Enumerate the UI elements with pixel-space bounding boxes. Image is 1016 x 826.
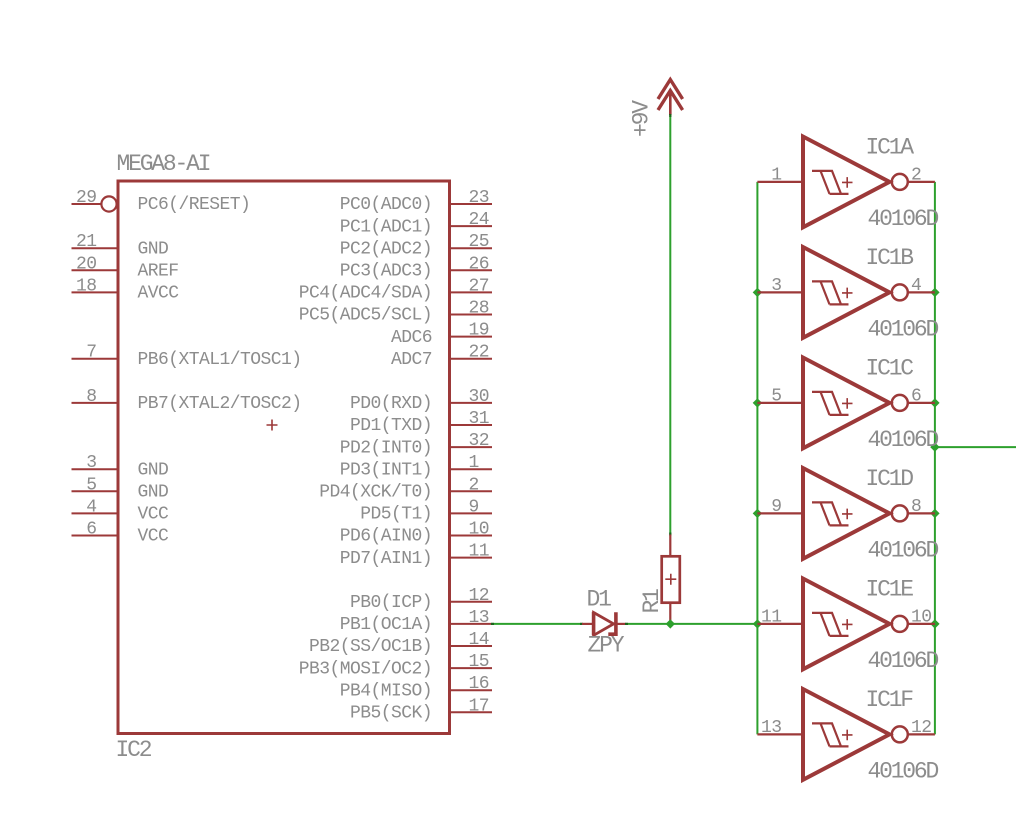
IC2 pin 18 AVCC (left) <box>72 276 180 303</box>
diode D1 (zener) <box>582 612 626 635</box>
svg-text:IC1E: IC1E <box>866 576 914 602</box>
junction input bus row 19 <box>753 619 762 628</box>
wire output to right edge <box>935 446 1016 448</box>
svg-text:8: 8 <box>911 497 921 517</box>
svg-text:40106D: 40106D <box>868 206 939 232</box>
svg-text:14: 14 <box>469 630 490 650</box>
svg-text:IC1D: IC1D <box>866 466 914 492</box>
svg-text:5: 5 <box>771 386 781 406</box>
inverter gate IC1D 40106D <box>757 468 935 559</box>
IC2 pin 20 AREF (left) <box>72 254 179 281</box>
svg-text:26: 26 <box>469 254 490 274</box>
IC2 pin 15 PB3(MOSI/OC2) (right) <box>299 652 492 679</box>
svg-text:32: 32 <box>469 431 490 451</box>
svg-text:40106D: 40106D <box>868 427 939 453</box>
svg-text:+9V: +9V <box>629 100 655 137</box>
junction output bus y=447 <box>930 442 939 451</box>
inverter gate IC1A 40106D <box>757 137 935 228</box>
IC U-IC2 MEGA8-AI body outline <box>118 181 450 734</box>
svg-text:3: 3 <box>771 276 781 296</box>
IC2 pin 19 ADC6 (right) <box>391 321 492 348</box>
IC2 pin 16 PB4(MISO) (right) <box>340 674 492 701</box>
svg-text:9: 9 <box>771 497 781 517</box>
svg-text:IC2: IC2 <box>116 737 152 763</box>
svg-text:PB2(SS/OC1B): PB2(SS/OC1B) <box>309 637 432 657</box>
wire input bus vertical (net to gate inputs) <box>756 182 758 735</box>
IC2 pin 14 PB2(SS/OC1B) (right) <box>309 630 492 657</box>
svg-text:PC4(ADC4/SDA): PC4(ADC4/SDA) <box>299 284 432 304</box>
svg-text:17: 17 <box>469 696 490 716</box>
svg-text:10: 10 <box>469 520 490 540</box>
svg-text:40106D: 40106D <box>868 316 939 342</box>
IC2 pin 13 PB1(OC1A) (right) <box>340 608 492 635</box>
IC2 pin 9 PD5(T1) (right) <box>360 497 492 524</box>
IC2 pin 4 VCC (left) <box>72 497 170 524</box>
junction output bus y=624 <box>930 619 939 628</box>
IC2 pin 5 GND (left) <box>72 475 169 502</box>
junction output bus y=403 <box>930 398 939 407</box>
svg-text:3: 3 <box>86 453 96 473</box>
IC2 pin 29 PC6(/RESET) (left) <box>72 188 251 215</box>
svg-text:PB5(SCK): PB5(SCK) <box>350 704 432 724</box>
resistor R1 <box>662 535 680 624</box>
junction input bus row 4 <box>753 288 762 297</box>
svg-text:5: 5 <box>86 475 96 495</box>
svg-text:PC6(/RESET): PC6(/RESET) <box>138 195 251 215</box>
IC2 pin 23 PC0(ADC0) (right) <box>340 188 492 215</box>
wire D1 cathode to junction node <box>626 623 757 625</box>
svg-text:PD6(AIN0): PD6(AIN0) <box>340 527 432 547</box>
svg-text:PD2(INT0): PD2(INT0) <box>340 438 432 458</box>
IC2 pin 30 PD0(RXD) (right) <box>350 387 492 414</box>
wire output bus vertical (gate outputs) <box>934 182 936 735</box>
svg-text:12: 12 <box>911 718 932 738</box>
IC2 pin 6 VCC (left) <box>72 520 170 547</box>
svg-text:23: 23 <box>469 188 490 208</box>
IC2 pin 24 PC1(ADC1) (right) <box>340 210 492 237</box>
junction R1/wire <box>666 619 675 628</box>
IC2 pin 21 GND (left) <box>72 232 169 259</box>
IC2 pin 2 PD4(XCK/T0) (right) <box>319 475 492 502</box>
svg-text:22: 22 <box>469 343 490 363</box>
svg-text:11: 11 <box>469 542 490 562</box>
svg-text:GND: GND <box>138 460 169 480</box>
svg-text:10: 10 <box>911 607 932 627</box>
svg-text:8: 8 <box>86 387 96 407</box>
svg-text:7: 7 <box>86 343 96 363</box>
svg-text:21: 21 <box>76 232 97 252</box>
IC2 origin cross <box>267 420 278 431</box>
IC2 pin 3 GND (left) <box>72 453 169 480</box>
svg-text:PB7(XTAL2/TOSC2): PB7(XTAL2/TOSC2) <box>138 394 302 414</box>
svg-text:PD0(RXD): PD0(RXD) <box>350 394 432 414</box>
svg-text:18: 18 <box>76 276 97 296</box>
svg-text:27: 27 <box>469 276 490 296</box>
junction output bus y=292 <box>930 288 939 297</box>
svg-text:PB1(OC1A): PB1(OC1A) <box>340 615 432 635</box>
svg-text:PC0(ADC0): PC0(ADC0) <box>340 195 432 215</box>
svg-text:PB0(ICP): PB0(ICP) <box>350 593 432 613</box>
junction input bus row 9 <box>753 398 762 407</box>
svg-text:2: 2 <box>469 475 479 495</box>
svg-text:PB4(MISO): PB4(MISO) <box>340 681 432 701</box>
svg-text:PD7(AIN1): PD7(AIN1) <box>340 549 432 569</box>
wire +9V to R1 <box>669 115 671 535</box>
IC2 pin 12 PB0(ICP) (right) <box>350 586 492 613</box>
IC2 pin 25 PC2(ADC2) (right) <box>340 232 492 259</box>
svg-text:IC1F: IC1F <box>866 687 914 713</box>
svg-text:1: 1 <box>771 165 781 185</box>
IC2 pin 27 PC4(ADC4/SDA) (right) <box>299 276 492 303</box>
svg-text:ADC6: ADC6 <box>391 328 432 348</box>
IC2 pin 1 PD3(INT1) (right) <box>340 453 492 480</box>
svg-text:AVCC: AVCC <box>138 284 180 304</box>
svg-text:PB6(XTAL1/TOSC1): PB6(XTAL1/TOSC1) <box>138 350 302 370</box>
svg-text:4: 4 <box>86 497 96 517</box>
svg-text:PC5(ADC5/SCL): PC5(ADC5/SCL) <box>299 306 432 326</box>
svg-text:13: 13 <box>761 718 782 738</box>
svg-text:11: 11 <box>761 607 782 627</box>
svg-text:IC1A: IC1A <box>866 134 915 160</box>
svg-text:12: 12 <box>469 586 490 606</box>
junction input bus row 14 <box>753 509 762 518</box>
svg-text:13: 13 <box>469 608 490 628</box>
svg-text:PD4(XCK/T0): PD4(XCK/T0) <box>319 483 432 503</box>
svg-text:15: 15 <box>469 652 490 672</box>
svg-text:VCC: VCC <box>138 505 170 525</box>
svg-text:2: 2 <box>911 165 921 185</box>
svg-text:PC3(ADC3): PC3(ADC3) <box>340 262 432 282</box>
svg-text:20: 20 <box>76 254 97 274</box>
wire IC2 PB1(OC1A) to D1 anode <box>492 623 582 625</box>
svg-text:PB3(MOSI/OC2): PB3(MOSI/OC2) <box>299 659 432 679</box>
IC2 pin 8 PB7(XTAL2/TOSC2) (left) <box>72 387 302 414</box>
svg-text:40106D: 40106D <box>868 537 939 563</box>
svg-text:IC1B: IC1B <box>866 245 914 271</box>
svg-text:24: 24 <box>469 210 490 230</box>
IC2 pin 26 PC3(ADC3) (right) <box>340 254 492 281</box>
svg-text:31: 31 <box>469 409 490 429</box>
+9V supply arrow symbol <box>658 80 683 116</box>
svg-text:1: 1 <box>469 453 479 473</box>
inverter gate IC1F 40106D <box>757 689 935 780</box>
svg-text:PC1(ADC1): PC1(ADC1) <box>340 217 432 237</box>
svg-text:6: 6 <box>86 520 96 540</box>
inverter gate IC1E 40106D <box>757 579 935 670</box>
svg-text:19: 19 <box>469 321 490 341</box>
junction output bus y=513 <box>930 509 939 518</box>
svg-text:40106D: 40106D <box>868 758 939 784</box>
svg-text:VCC: VCC <box>138 527 170 547</box>
svg-text:29: 29 <box>76 188 97 208</box>
IC2 pin 31 PD1(TXD) (right) <box>350 409 492 436</box>
svg-text:D1: D1 <box>587 587 612 613</box>
svg-text:25: 25 <box>469 232 490 252</box>
IC2 pin 7 PB6(XTAL1/TOSC1) (left) <box>72 343 302 370</box>
IC2 pin 32 PD2(INT0) (right) <box>340 431 492 458</box>
svg-text:9: 9 <box>469 497 479 517</box>
IC2 pin 11 PD7(AIN1) (right) <box>340 542 492 569</box>
svg-text:40106D: 40106D <box>868 648 939 674</box>
IC2 pin 28 PC5(ADC5/SCL) (right) <box>299 299 492 326</box>
svg-text:16: 16 <box>469 674 490 694</box>
svg-text:30: 30 <box>469 387 490 407</box>
svg-text:PD3(INT1): PD3(INT1) <box>340 460 432 480</box>
svg-text:PD1(TXD): PD1(TXD) <box>350 416 432 436</box>
IC2 pin 17 PB5(SCK) (right) <box>350 696 492 723</box>
svg-text:28: 28 <box>469 299 490 319</box>
IC2 pin 10 PD6(AIN0) (right) <box>340 520 492 547</box>
svg-text:R1: R1 <box>639 589 665 614</box>
svg-text:PC2(ADC2): PC2(ADC2) <box>340 239 432 259</box>
svg-text:AREF: AREF <box>138 262 179 282</box>
svg-text:MEGA8-AI: MEGA8-AI <box>117 151 210 177</box>
svg-text:ZPY: ZPY <box>588 633 625 659</box>
IC2 pin 22 ADC7 (right) <box>391 343 492 370</box>
svg-text:6: 6 <box>911 386 921 406</box>
inverter gate IC1B 40106D <box>757 247 935 338</box>
svg-text:4: 4 <box>911 276 921 296</box>
svg-text:GND: GND <box>138 239 169 259</box>
svg-text:ADC7: ADC7 <box>391 350 432 370</box>
svg-text:GND: GND <box>138 483 169 503</box>
svg-text:IC1C: IC1C <box>866 355 914 381</box>
inverter gate IC1C 40106D <box>757 358 935 449</box>
svg-text:PD5(T1): PD5(T1) <box>360 505 432 525</box>
